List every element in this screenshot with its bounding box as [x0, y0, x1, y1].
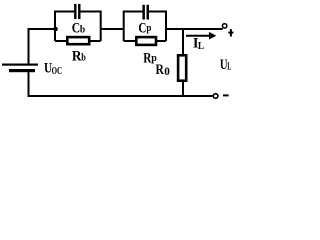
svg-text:R: R: [72, 49, 82, 65]
svg-text:OC: OC: [52, 66, 62, 77]
svg-text:0: 0: [164, 66, 170, 78]
svg-text:R: R: [156, 62, 165, 78]
svg-text:b: b: [81, 52, 86, 64]
svg-text:b: b: [80, 24, 85, 36]
svg-text:L: L: [198, 40, 204, 52]
svg-text:C: C: [138, 21, 146, 37]
svg-text:L: L: [227, 62, 231, 73]
svg-text:p: p: [146, 23, 151, 34]
